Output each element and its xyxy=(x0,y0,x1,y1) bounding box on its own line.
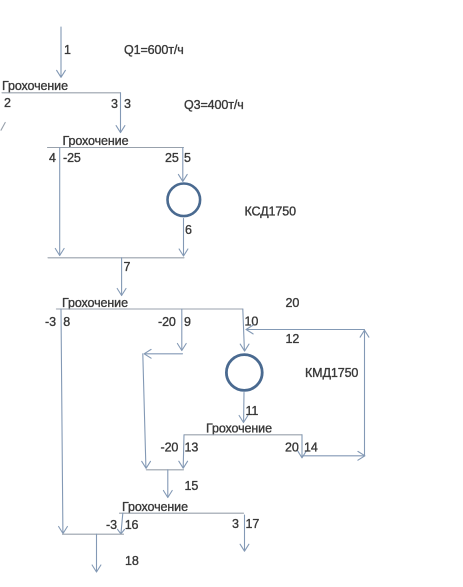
wire stream 11 crusher discharge xyxy=(239,393,248,423)
wire merge line streams 8 and 16 xyxy=(63,533,124,535)
wire stream 12 recycle horizontal xyxy=(246,325,365,334)
wire stream 13 undersize -20 xyxy=(179,435,188,468)
screen S2 deck line xyxy=(48,147,184,149)
wire stream 8 undersize -3 long left line xyxy=(59,309,68,534)
wire stream 17 oversize +3 xyxy=(240,515,249,551)
screen S5 deck line xyxy=(120,512,244,514)
svg-text:-20: -20 xyxy=(161,441,179,455)
screen S3 deck line xyxy=(56,308,242,310)
screen S4 deck line xyxy=(185,434,303,436)
svg-text:2: 2 xyxy=(4,96,11,110)
crusher КСД1750 xyxy=(168,184,201,217)
svg-text:14: 14 xyxy=(304,441,318,455)
wire stream 14 oversize down stub xyxy=(298,435,307,458)
svg-text:25: 25 xyxy=(165,151,179,165)
crusher КМД1750 xyxy=(226,355,262,391)
wire stream 14 to recycle riser xyxy=(303,451,365,460)
wire stream 6 crusher discharge xyxy=(179,219,188,257)
svg-text:12: 12 xyxy=(286,332,300,346)
svg-text:20: 20 xyxy=(286,296,300,310)
wire stream 10 oversize to crusher КМД xyxy=(240,309,249,351)
svg-text:8: 8 xyxy=(63,315,70,329)
svg-text:-3: -3 xyxy=(106,518,117,532)
svg-text:18: 18 xyxy=(125,554,139,568)
wire recycle right riser xyxy=(360,330,369,456)
wire stream 3 oversize to screen S2 xyxy=(116,93,125,133)
wire stream 18 product xyxy=(92,534,101,572)
svg-text:20: 20 xyxy=(285,441,299,455)
svg-text:Q3=400т/ч: Q3=400т/ч xyxy=(184,98,244,112)
svg-text:КМД1750: КМД1750 xyxy=(305,366,358,380)
wire connector riser down to collector xyxy=(142,354,151,469)
svg-text:-25: -25 xyxy=(63,151,81,165)
svg-text:13: 13 xyxy=(185,441,199,455)
svg-text:4: 4 xyxy=(49,151,56,165)
wire stream 1 feed xyxy=(57,27,66,77)
svg-text:Грохочение: Грохочение xyxy=(62,296,128,310)
wire stream 16 undersize -3 xyxy=(118,513,125,534)
wire connector stream 9 to S5 collector xyxy=(144,349,182,358)
svg-text:6: 6 xyxy=(185,223,192,237)
wire stream 2 stub lower-left xyxy=(1,123,5,131)
svg-text:3: 3 xyxy=(111,97,118,111)
svg-text:17: 17 xyxy=(246,517,260,531)
svg-text:3: 3 xyxy=(232,517,239,531)
svg-text:-3: -3 xyxy=(45,315,56,329)
wire stream 15 to screen S5 xyxy=(163,470,172,498)
svg-text:Грохочение: Грохочение xyxy=(206,422,272,436)
wire stream 4 undersize -25 xyxy=(55,148,64,256)
wire stream 9 undersize -20 xyxy=(177,309,186,351)
svg-text:16: 16 xyxy=(125,518,139,532)
svg-text:3: 3 xyxy=(124,97,131,111)
wire collector under S4 xyxy=(146,469,183,471)
svg-text:11: 11 xyxy=(246,404,259,418)
svg-text:-20: -20 xyxy=(158,315,176,329)
svg-text:5: 5 xyxy=(184,151,191,165)
svg-text:9: 9 xyxy=(184,315,191,329)
svg-text:Q1=600т/ч: Q1=600т/ч xyxy=(124,43,184,57)
svg-text:15: 15 xyxy=(185,479,199,493)
wire stream 7 to screen S3 xyxy=(117,258,126,296)
svg-text:Грохочение: Грохочение xyxy=(63,134,129,148)
screen S1 deck line xyxy=(2,92,121,94)
svg-text:Грохочение: Грохочение xyxy=(2,79,68,93)
wire collector line under S2 xyxy=(48,257,184,259)
svg-text:7: 7 xyxy=(124,260,131,274)
wire stream 5 to crusher КСД xyxy=(178,148,187,182)
svg-text:КСД1750: КСД1750 xyxy=(245,205,297,219)
svg-text:Грохочение: Грохочение xyxy=(122,500,188,514)
svg-text:1: 1 xyxy=(64,43,71,57)
